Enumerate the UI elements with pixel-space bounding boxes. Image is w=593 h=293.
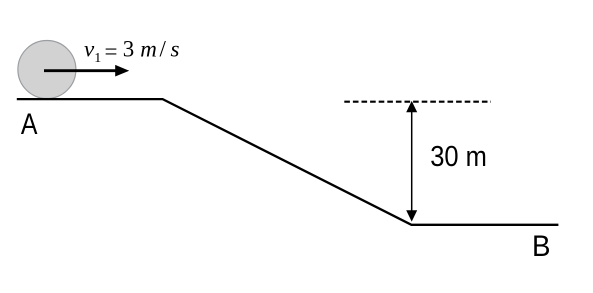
svg-text:A: A <box>21 108 38 141</box>
svg-text:B: B <box>532 230 551 263</box>
velocity arrow <box>44 65 129 77</box>
svg-text:30 m: 30 m <box>430 141 487 173</box>
ball (gray circle) <box>18 41 76 99</box>
height dimension arrow (double headed) <box>406 101 417 222</box>
dashed reference line <box>344 101 491 103</box>
ground profile: upper platform, slope, lower platform <box>17 99 559 225</box>
